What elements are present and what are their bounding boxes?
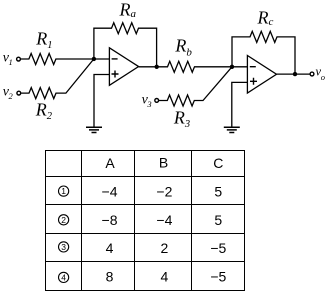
svg-text:R2: R2 bbox=[35, 99, 53, 121]
svg-text:Rb: Rb bbox=[174, 35, 192, 58]
svg-text:−5: −5 bbox=[210, 269, 226, 285]
svg-text:R1: R1 bbox=[35, 29, 52, 51]
svg-text:−5: −5 bbox=[210, 240, 226, 256]
svg-text:Ra: Ra bbox=[119, 0, 137, 20]
svg-text:vo: vo bbox=[316, 65, 326, 82]
svg-text:4: 4 bbox=[61, 273, 66, 283]
svg-text:−4: −4 bbox=[102, 183, 118, 199]
svg-text:4: 4 bbox=[106, 240, 114, 256]
svg-text:v1: v1 bbox=[3, 51, 13, 68]
svg-text:v3: v3 bbox=[142, 93, 152, 110]
svg-text:R3: R3 bbox=[173, 108, 190, 130]
svg-text:A: A bbox=[105, 155, 115, 171]
svg-text:C: C bbox=[213, 155, 223, 171]
svg-text:−2: −2 bbox=[156, 183, 172, 199]
svg-text:8: 8 bbox=[106, 269, 114, 285]
svg-text:3: 3 bbox=[61, 242, 66, 252]
svg-text:5: 5 bbox=[214, 183, 222, 199]
svg-text:2: 2 bbox=[161, 240, 169, 256]
svg-text:−8: −8 bbox=[102, 212, 118, 228]
svg-text:B: B bbox=[159, 155, 168, 171]
svg-text:v2: v2 bbox=[3, 84, 14, 101]
svg-text:2: 2 bbox=[61, 215, 66, 225]
svg-text:4: 4 bbox=[161, 269, 169, 285]
svg-text:Rc: Rc bbox=[257, 8, 274, 29]
svg-text:1: 1 bbox=[61, 186, 66, 196]
svg-text:5: 5 bbox=[214, 212, 222, 228]
svg-text:−4: −4 bbox=[156, 212, 172, 228]
